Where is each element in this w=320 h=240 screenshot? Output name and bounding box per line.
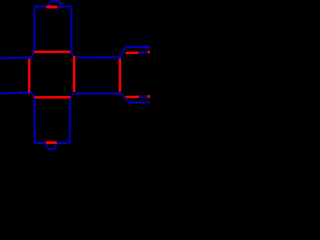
diagonal bottom-left junction xyxy=(31,92,35,96)
flap bottom-left diagonal xyxy=(121,93,129,102)
left square top edge xyxy=(0,57,31,58)
top square right edge xyxy=(70,7,72,53)
cube net diagram (unfolded box), blue outline with red fold lines and tabs xyxy=(0,0,150,150)
diagonal top-left junction xyxy=(30,52,34,58)
red part of flap inner top line xyxy=(126,51,139,54)
red bar of bottom tab xyxy=(46,141,57,144)
right square top edge xyxy=(75,56,121,58)
bottom square bottom edge xyxy=(35,142,70,144)
diagonal top-right of top square to right square xyxy=(72,53,76,58)
bottom square right edge xyxy=(69,97,72,143)
red top fold of center square xyxy=(34,50,70,53)
top tab trapezoid xyxy=(48,1,61,6)
red tip at right end of flap inner bottom line xyxy=(147,95,150,98)
bottom tab trapezoid xyxy=(46,143,57,149)
red right fold of center square xyxy=(73,56,76,92)
red bar of top tab xyxy=(46,6,57,9)
flap inner bottom line blue part xyxy=(139,95,147,97)
top square left edge xyxy=(33,7,35,52)
flap inner top line blue part xyxy=(139,51,148,53)
diagonal bottom-right junction xyxy=(70,93,74,97)
right square bottom edge xyxy=(75,92,121,94)
red left fold of center square xyxy=(28,59,31,93)
red bottom fold of center square xyxy=(34,96,70,99)
red fold between right square and flap xyxy=(119,58,122,92)
red part of flap inner bottom line xyxy=(125,95,139,98)
flap bottom edge xyxy=(129,101,150,103)
flap top edge xyxy=(126,46,150,48)
red tip at right end of flap inner top line xyxy=(148,51,150,54)
top square top edge xyxy=(34,5,72,7)
left square bottom edge xyxy=(0,92,31,93)
flap top-left diagonal xyxy=(120,47,126,58)
bottom square left edge xyxy=(33,96,35,143)
